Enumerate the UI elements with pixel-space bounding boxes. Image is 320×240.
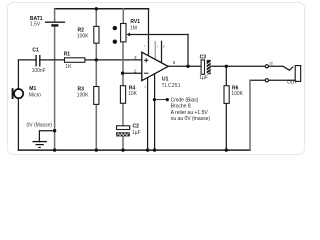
wire C1 to R1 — [40, 59, 65, 61]
resistor R6 — [224, 86, 244, 104]
node pin4/rail — [146, 148, 149, 151]
wire battery bottom long run — [54, 26, 56, 150]
node dot lower left of RV1 — [113, 40, 117, 44]
wire C1 left to mic — [18, 60, 36, 89]
svg-text:Cmde (Bias): Cmde (Bias) — [171, 97, 199, 103]
wire R3 bottom — [95, 104, 97, 150]
svg-text:100K: 100K — [77, 92, 89, 98]
svg-text:C1: C1 — [32, 48, 39, 54]
wire C2 bottom — [122, 136, 124, 150]
svg-text:RV1: RV1 — [130, 19, 140, 25]
annotation Cmde pin 8 — [153, 97, 211, 122]
svg-text:1: 1 — [157, 45, 159, 49]
wire R6 bottom — [225, 103, 227, 150]
svg-text:R2: R2 — [78, 28, 85, 34]
wire pin 1 stub top — [154, 41, 156, 60]
svg-text:8: 8 — [163, 45, 165, 49]
svg-text:C3: C3 — [200, 55, 207, 61]
wire RV1 wiper to feedback — [130, 34, 188, 36]
svg-text:1M: 1M — [130, 25, 137, 31]
battery BAT1 — [30, 16, 65, 27]
svg-text:100nF: 100nF — [32, 68, 46, 74]
microphone M1 — [13, 86, 42, 99]
node R6/output — [225, 65, 228, 68]
capacitor C2 — [116, 124, 141, 137]
node rail/R2 — [95, 7, 98, 10]
svg-text:Broche 8: Broche 8 — [171, 104, 191, 110]
node battery/ground branch — [53, 129, 56, 132]
resistor R3 — [77, 86, 99, 104]
resistor R4 — [120, 85, 137, 103]
wire battery top — [54, 9, 56, 22]
resistor R1 — [64, 51, 85, 70]
wire feedback drop to output — [187, 35, 189, 67]
wire pin 2 — [123, 72, 142, 74]
node pin2/RV1/R4 — [121, 72, 124, 75]
potentiometer RV1 — [121, 19, 141, 42]
svg-text:1K: 1K — [65, 64, 72, 70]
node feedback/output — [186, 65, 189, 68]
svg-text:U1: U1 — [162, 77, 169, 83]
wire R6 top — [225, 66, 227, 85]
svg-text:100K: 100K — [77, 34, 89, 40]
wire sleeve drop to rail — [249, 80, 251, 150]
connector J2 jack tip — [265, 61, 301, 85]
wire R3 top — [95, 60, 97, 87]
wire top +1.5V rail — [55, 8, 149, 10]
node R3/rail — [95, 148, 98, 151]
wire bottom 0V rail — [18, 149, 250, 151]
svg-text:R1: R1 — [64, 51, 71, 57]
node battery/rail — [53, 148, 56, 151]
wire R2 bottom — [95, 43, 97, 60]
svg-text:1µF: 1µF — [132, 130, 141, 136]
wire output from pin 6 — [168, 65, 201, 67]
wire pin 4 to 0V rail — [147, 78, 149, 151]
wire RV1 top — [122, 9, 124, 24]
wire RV1 bottom to R4 — [122, 42, 124, 86]
op-amp U1 — [134, 45, 181, 89]
svg-text:Micro: Micro — [29, 93, 41, 99]
wire pin 8 stub down — [154, 74, 156, 150]
svg-text:TLC251: TLC251 — [162, 83, 181, 89]
svg-text:1.5V: 1.5V — [30, 21, 41, 27]
wire ground branch — [39, 131, 54, 142]
wire jack sleeve return — [250, 79, 265, 81]
resistor R2 — [77, 26, 99, 43]
wire jack tip contact — [268, 66, 292, 70]
svg-text:4: 4 — [144, 85, 146, 89]
ground symbol — [33, 142, 47, 148]
svg-text:7: 7 — [143, 45, 145, 49]
wire pin 8 stub top — [161, 41, 163, 63]
svg-text:100K: 100K — [231, 91, 243, 97]
svg-text:10K: 10K — [128, 91, 138, 97]
wire C3 to jack tip — [211, 65, 265, 67]
wire rail drop to op-amp pin 7 — [148, 9, 150, 56]
node pin8/rail — [153, 148, 156, 151]
capacitor C3 — [199, 55, 211, 81]
svg-text:M1: M1 — [29, 86, 36, 92]
wire jack sleeve to body — [268, 79, 295, 81]
svg-text:OUT: OUT — [287, 79, 297, 84]
outer frame — [8, 3, 305, 155]
wire R1 to pin 3 — [85, 59, 142, 61]
svg-text:ou au 0V (masse): ou au 0V (masse) — [171, 116, 211, 122]
wire R4 bottom to C2 — [122, 103, 124, 125]
svg-text:C2: C2 — [133, 124, 140, 130]
wire pin 8 to annotation dot — [155, 99, 168, 101]
svg-text:1µF: 1µF — [199, 75, 208, 81]
node R6/rail — [225, 148, 228, 151]
node dot upper left of RV1 — [113, 26, 117, 30]
node C2/rail — [121, 148, 124, 151]
wire R2 top — [95, 9, 97, 27]
node R1/R2/R3 — [95, 58, 98, 61]
svg-text:0V (Masse): 0V (Masse) — [27, 123, 53, 129]
wire mic bottom — [17, 99, 19, 151]
capacitor C1 — [32, 48, 46, 75]
